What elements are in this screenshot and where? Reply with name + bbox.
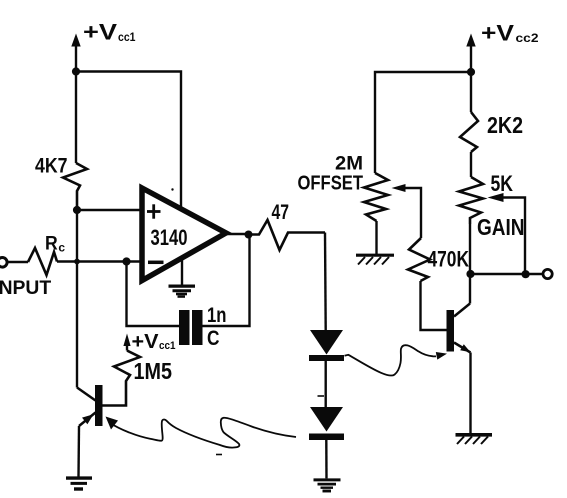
scan speck near op-amp top [171, 188, 173, 190]
svg-text:INPUT: INPUT [0, 277, 51, 299]
wire Vcc1 down to R1 [75, 72, 77, 164]
wire input lead [7, 261, 28, 263]
op-amp + input mark [147, 204, 161, 218]
ground Q1 [66, 478, 92, 489]
potentiometer VR1 2M [364, 173, 388, 221]
svg-text:cc1: cc1 [118, 30, 136, 44]
ground offset pot (hatched) [356, 255, 394, 264]
svg-text:1n: 1n [207, 304, 227, 327]
node Vcc2 junction dot [467, 68, 475, 76]
node noninverting junction dot [73, 206, 81, 214]
output terminal [543, 269, 552, 278]
wire 470K to Q2 base [421, 281, 447, 330]
potentiometer 5K wiper arrow [488, 193, 526, 274]
wire input to op-amp - input [57, 260, 140, 262]
wire 2K2 to 5K [470, 152, 472, 177]
resistor R2 47 [249, 220, 326, 250]
wire D1 to D2 [325, 361, 327, 407]
node inverting input junction dot [122, 257, 130, 265]
transistor Q2 emitter lead [454, 343, 471, 353]
node wiper junction dot [522, 270, 530, 278]
svg-text:R: R [45, 233, 58, 255]
ground Q2 (hatched) [456, 435, 493, 444]
svg-text:5K: 5K [491, 171, 514, 196]
svg-text:C: C [207, 327, 220, 350]
capacitor C1 1n [179, 310, 203, 345]
svg-text:4K7: 4K7 [35, 155, 68, 178]
resistor R4 2K2 [460, 112, 478, 152]
resistor Rc [28, 248, 57, 275]
wire to op-amp + input [77, 209, 142, 211]
svg-text:1M5: 1M5 [134, 358, 173, 384]
svg-text:GAIN: GAIN [477, 214, 525, 240]
svg-text:470K: 470K [428, 247, 470, 272]
annotation arrow squiggle to Q1 [106, 417, 297, 448]
ground op-amp [169, 258, 196, 297]
svg-text:c: c [58, 241, 65, 255]
label +Vcc1 small [132, 331, 176, 353]
label Rc [45, 233, 65, 255]
potentiometer VR2 5K [459, 177, 483, 224]
transistor Q2 base bar [447, 310, 455, 352]
wire 2M to ground [375, 221, 377, 254]
supply +Vcc1 arrow [71, 34, 80, 72]
node emitter-follower output dot [466, 270, 474, 278]
label +Vcc2 [481, 21, 539, 46]
diode D2 [309, 407, 344, 440]
potentiometer 2M wiper arrow [392, 184, 422, 238]
wire node down to Q1 collector [76, 210, 78, 388]
svg-text:47: 47 [272, 201, 290, 224]
node output junction dot [245, 231, 253, 239]
label +Vcc1 [83, 20, 136, 45]
transistor Q1 emitter lead [79, 413, 96, 427]
resistor R3 1M5 [103, 351, 141, 406]
scan speck dash near diode wire [318, 395, 325, 397]
wire feedback left [127, 262, 180, 327]
supply +Vcc2 arrow [466, 34, 475, 73]
annotation arrow squiggle to Q2 [345, 345, 448, 375]
svg-text:+V: +V [481, 21, 514, 46]
wire feedback right [203, 236, 250, 326]
transistor Q2 emitter arrow (NPN) [460, 344, 470, 352]
svg-text:cc2: cc2 [516, 31, 539, 45]
wire 47 to diode chain [324, 233, 327, 331]
scan speck below squiggle [216, 454, 222, 456]
supply +Vcc1 small arrow [123, 334, 130, 351]
svg-text:cc1: cc1 [159, 340, 176, 352]
wire output row [471, 273, 545, 275]
node Vcc1 junction dot [72, 67, 80, 75]
wire Vcc2 rail to offset pot [375, 72, 471, 173]
wire Q1 emitter to ground [77, 426, 80, 477]
transistor Q1 emitter arrow (PNP) [82, 414, 94, 424]
transistor Q1 collector lead [77, 388, 96, 401]
input terminal [0, 258, 7, 268]
ground diodes [314, 480, 341, 491]
node small crossing dot [74, 259, 80, 265]
resistor R5 470K [408, 238, 430, 281]
wire 5K to collector node [469, 224, 471, 304]
wire Q2 emitter to ground [469, 353, 471, 434]
transistor Q2 collector lead [454, 304, 470, 317]
transistor Q1 base bar [95, 385, 103, 426]
wire Vcc1 to op-amp supply [76, 72, 181, 210]
svg-text:OFFSET: OFFSET [298, 172, 364, 195]
diode D1 [309, 330, 344, 361]
wire Vcc2 down to 2K2 [470, 72, 472, 112]
op-amp U1 3140 [142, 188, 226, 281]
resistor R1 4K7 [63, 163, 87, 210]
svg-text:3140: 3140 [151, 225, 188, 250]
svg-text:+V: +V [83, 20, 117, 45]
op-amp - input mark [148, 261, 164, 265]
svg-text:2K2: 2K2 [487, 112, 523, 138]
wire D2 to ground [325, 440, 328, 478]
wire op-amp output [226, 233, 249, 235]
svg-text:+V: +V [132, 331, 160, 353]
